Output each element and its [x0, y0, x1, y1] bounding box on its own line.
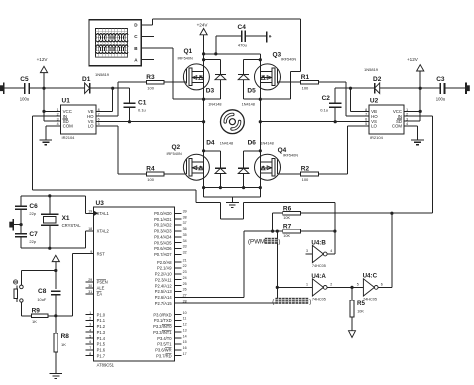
wire U1.COM — [46, 126, 61, 140]
node xtal top — [48, 194, 51, 197]
capacitor C3 — [436, 76, 446, 102]
resistor R7 — [283, 224, 301, 239]
svg-text:6: 6 — [98, 117, 100, 121]
svg-text:U3: U3 — [96, 200, 105, 207]
svg-text:8: 8 — [89, 352, 91, 356]
svg-text:C4: C4 — [238, 24, 247, 31]
label PWM — [248, 238, 280, 246]
svg-text:+24V: +24V — [197, 22, 209, 27]
resistor R6 — [283, 205, 301, 220]
svg-text:P3.4/T0: P3.4/T0 — [157, 336, 172, 341]
wire U4B in stub — [306, 253, 313, 255]
svg-text:P0.3/AD3: P0.3/AD3 — [154, 229, 172, 234]
wire R6 branch — [272, 213, 274, 231]
svg-text:R3: R3 — [146, 74, 155, 81]
wire D3 top — [204, 60, 221, 75]
U2 pin labels — [365, 108, 408, 129]
node RST net — [54, 314, 57, 317]
svg-text:1K: 1K — [61, 342, 66, 347]
node +24V rail — [202, 52, 205, 55]
node A left — [202, 186, 205, 189]
svg-text:P2.2/A10: P2.2/A10 — [155, 272, 173, 277]
node motor right rail — [259, 120, 262, 123]
svg-text:13: 13 — [183, 328, 187, 332]
ground R8 — [50, 374, 63, 379]
node U4A in — [276, 286, 279, 289]
wire switch top — [21, 270, 55, 272]
svg-text:P1.5: P1.5 — [97, 342, 106, 347]
transistor Q1 — [178, 48, 210, 90]
node U2 VCC — [419, 110, 422, 113]
wire scope D — [141, 19, 300, 25]
svg-text:74HC05: 74HC05 — [312, 264, 326, 268]
svg-text:R7: R7 — [283, 224, 292, 231]
label direction — [272, 298, 311, 306]
wire top rail — [204, 53, 261, 55]
wire U2.COM — [404, 126, 418, 140]
wire D4 bottom — [219, 174, 221, 188]
svg-text:P1.0: P1.0 — [97, 312, 106, 317]
wire — [4, 87, 25, 89]
U3 pin names — [94, 211, 172, 358]
svg-text:39: 39 — [183, 210, 187, 214]
wire U2.VCC — [404, 110, 420, 112]
mcu U3 box — [94, 200, 175, 367]
wire U1.IN — [33, 116, 61, 190]
svg-text:IRF540N: IRF540N — [281, 58, 296, 62]
svg-text:C5: C5 — [20, 76, 29, 83]
svg-text:23: 23 — [183, 270, 187, 274]
wire source rail A — [204, 187, 261, 189]
terminal right — [466, 83, 470, 94]
svg-text:D1: D1 — [82, 76, 91, 83]
wire — [29, 87, 85, 89]
node D5 top — [259, 58, 262, 61]
svg-text:C8: C8 — [38, 288, 47, 295]
wire U4A out — [327, 286, 363, 288]
svg-text:R6: R6 — [283, 205, 292, 212]
gate U4:B — [306, 239, 332, 268]
svg-text:14: 14 — [183, 334, 187, 338]
svg-text:P1.1: P1.1 — [97, 318, 106, 323]
wire R1 to U2.HO — [318, 82, 369, 116]
terminal arrow down — [349, 331, 356, 338]
power +12V right — [407, 57, 424, 88]
svg-text:21: 21 — [183, 258, 187, 262]
svg-text:COM: COM — [63, 124, 74, 129]
node xtal bottom — [48, 247, 51, 250]
wire — [21, 237, 86, 249]
transistor Q2 — [167, 144, 210, 180]
capacitor C2 — [320, 88, 341, 122]
svg-text:1N5819: 1N5819 — [364, 67, 379, 72]
terminal left mid — [9, 219, 21, 230]
wire C4 riser — [216, 36, 242, 54]
wire U1.HO — [96, 82, 147, 116]
capacitor C7 — [15, 231, 38, 244]
wire U4C out — [378, 213, 392, 287]
svg-text:PSEN: PSEN — [97, 280, 108, 285]
svg-text:+12V: +12V — [37, 57, 49, 62]
svg-text:1: 1 — [306, 283, 308, 287]
wire — [20, 209, 22, 233]
svg-text:XTAL1: XTAL1 — [97, 211, 110, 216]
crystal X1 — [41, 196, 81, 248]
switch button — [14, 271, 24, 316]
node left mid — [202, 98, 205, 101]
svg-text:C6: C6 — [29, 203, 38, 210]
svg-text:EA: EA — [97, 292, 103, 297]
wire U1.VCC — [44, 110, 60, 112]
svg-text:COM: COM — [392, 124, 403, 129]
wire Q4 gate — [277, 173, 300, 175]
svg-text:): ) — [278, 239, 280, 246]
wire P2.7 stub — [175, 302, 182, 304]
svg-text:P0.4/AD4: P0.4/AD4 — [154, 235, 172, 240]
diode D3 — [206, 75, 226, 107]
wire IN-net left — [33, 189, 196, 191]
U3 right stubs — [175, 210, 187, 356]
svg-text:10K: 10K — [283, 216, 290, 220]
transistor Q3 — [255, 51, 297, 90]
svg-text:1: 1 — [89, 311, 91, 315]
node D6 top — [259, 149, 262, 152]
svg-text:P1.3: P1.3 — [97, 330, 106, 335]
wire R7 line — [244, 230, 335, 232]
resistor R5 — [350, 287, 365, 330]
wire IN-net dodge rail — [196, 190, 335, 219]
svg-text:33: 33 — [183, 245, 187, 249]
node R6/R7 — [271, 230, 274, 233]
wire Q1 column — [203, 54, 205, 122]
svg-text:P3.7/RD: P3.7/RD — [156, 353, 172, 358]
gate U4:C — [357, 273, 383, 302]
svg-text:Q2: Q2 — [172, 144, 181, 151]
oscilloscope — [89, 20, 141, 66]
motor — [221, 110, 245, 134]
svg-text:D2: D2 — [373, 76, 382, 83]
svg-text:P1.7: P1.7 — [97, 353, 106, 358]
svg-text:30: 30 — [88, 284, 92, 288]
svg-text:LO: LO — [88, 124, 94, 129]
svg-text:17: 17 — [183, 352, 187, 356]
svg-text:P2.4/A12: P2.4/A12 — [155, 283, 173, 288]
svg-text:U4:B: U4:B — [311, 239, 326, 246]
svg-text:C3: C3 — [436, 76, 445, 83]
svg-text:U1: U1 — [62, 98, 71, 105]
svg-text:C2: C2 — [322, 95, 331, 102]
svg-text:R2: R2 — [301, 166, 310, 173]
capacitor C4 — [238, 24, 272, 47]
capacitor C8 — [37, 288, 60, 302]
node +12V/C5 — [42, 87, 45, 90]
svg-text:D6: D6 — [248, 140, 257, 147]
svg-text:38: 38 — [183, 215, 187, 219]
node D1/VB — [111, 87, 114, 90]
svg-text:2: 2 — [89, 317, 91, 321]
wire U2.IN — [404, 116, 433, 213]
svg-text:P3.2/INT0: P3.2/INT0 — [153, 324, 172, 329]
wire switch bottom — [21, 315, 31, 317]
svg-text:6: 6 — [365, 117, 367, 121]
wire — [380, 87, 441, 89]
resistor R2 — [301, 166, 319, 183]
svg-text:R9: R9 — [32, 308, 41, 315]
svg-text:22p: 22p — [29, 211, 36, 216]
wire P2.6 stub — [175, 296, 182, 298]
svg-text:IRF540N: IRF540N — [167, 152, 182, 156]
wire U1.VS rail — [96, 121, 204, 123]
svg-text:IR2104: IR2104 — [62, 135, 76, 140]
node R7 right — [333, 230, 336, 233]
diode D2 — [351, 67, 382, 94]
wire U4A in — [277, 286, 312, 288]
wire Q2 column — [203, 122, 205, 197]
svg-text:P2.5/A13: P2.5/A13 — [155, 289, 173, 294]
svg-text:1N4148: 1N4148 — [208, 103, 221, 107]
wire left mid — [204, 98, 221, 100]
svg-text:100: 100 — [302, 177, 309, 182]
ground bridge — [226, 203, 239, 208]
wire scope B — [141, 48, 203, 99]
wire scope D route — [291, 19, 301, 99]
svg-text:24: 24 — [183, 276, 187, 280]
wire D6 top — [244, 151, 261, 169]
svg-text:22p: 22p — [29, 239, 36, 244]
svg-text:26: 26 — [183, 288, 187, 292]
svg-text:P3.3/INT1: P3.3/INT1 — [153, 330, 172, 335]
capacitor C1 — [123, 100, 146, 113]
wire D4 top — [204, 151, 221, 169]
node +12V right — [419, 87, 422, 90]
node D4 top — [202, 149, 205, 152]
wire P2.7 riser — [182, 231, 278, 303]
svg-text:100: 100 — [147, 85, 154, 90]
svg-text:IRF540N: IRF540N — [178, 56, 193, 60]
wire — [129, 107, 131, 122]
svg-text:29: 29 — [88, 278, 92, 282]
svg-text:34: 34 — [183, 239, 187, 243]
svg-text:1N4148: 1N4148 — [260, 141, 273, 145]
svg-text:5: 5 — [365, 122, 367, 126]
svg-text:IR2104: IR2104 — [370, 135, 384, 140]
transistor Q4 — [255, 147, 299, 180]
svg-text:0.1u: 0.1u — [138, 108, 146, 113]
svg-text:1N4148: 1N4148 — [220, 141, 233, 145]
svg-text:D4: D4 — [206, 140, 215, 147]
svg-text:100u: 100u — [436, 97, 446, 102]
svg-text:28: 28 — [183, 299, 187, 303]
wire XTAL1 — [86, 196, 94, 213]
svg-text:LO: LO — [371, 124, 377, 129]
wire D6 bottom — [243, 174, 245, 188]
wire motor rail right — [260, 121, 369, 123]
svg-text:1K: 1K — [32, 319, 37, 324]
svg-text:22: 22 — [183, 264, 187, 268]
svg-text:7: 7 — [89, 346, 91, 350]
svg-text:25: 25 — [183, 282, 187, 286]
svg-text:P2.0/A8: P2.0/A8 — [157, 260, 172, 265]
diode D1 — [82, 72, 110, 94]
svg-text:100u: 100u — [20, 97, 30, 102]
wire U1.VB — [96, 110, 113, 112]
svg-text:P2.6/A14: P2.6/A14 — [155, 295, 173, 300]
wire R3 to Q1 gate — [164, 81, 186, 83]
op-amp driver U1 box — [60, 98, 95, 140]
svg-text:470u: 470u — [238, 43, 247, 48]
svg-text:U4:A: U4:A — [311, 273, 326, 280]
svg-text:5: 5 — [357, 283, 359, 287]
svg-text:P2.1/A9: P2.1/A9 — [157, 266, 172, 271]
node VCC — [42, 110, 45, 113]
gate U4:A — [306, 273, 332, 302]
svg-text:X1: X1 — [62, 215, 70, 222]
resistor R4 — [146, 166, 164, 183]
svg-text:6: 6 — [381, 283, 383, 287]
svg-text:P3.1/TXD: P3.1/TXD — [154, 318, 172, 323]
svg-text:U4:C: U4:C — [363, 273, 378, 280]
node C1/VS — [128, 120, 131, 123]
wire C2 top — [335, 87, 350, 89]
svg-text:P1.2: P1.2 — [97, 324, 106, 329]
svg-text:P0.6/AD6: P0.6/AD6 — [154, 246, 172, 251]
wire Q3 column — [259, 54, 261, 122]
diode D5 — [238, 75, 256, 107]
svg-text:P3.0/RXD: P3.0/RXD — [153, 312, 171, 317]
wire — [55, 295, 57, 334]
wire +12V rail down right — [404, 88, 420, 121]
wire D5 top — [244, 60, 261, 75]
svg-text:AT89C51: AT89C51 — [97, 362, 115, 367]
svg-text:35: 35 — [183, 233, 187, 237]
wire — [48, 315, 56, 317]
svg-text:0.1u: 0.1u — [320, 108, 328, 113]
wire VB riser — [112, 88, 114, 111]
svg-text:D5: D5 — [247, 88, 256, 95]
node U4C out — [390, 212, 393, 215]
svg-text:12: 12 — [183, 323, 187, 327]
wire R4 to Q2 gate — [164, 173, 186, 175]
svg-text:ALE: ALE — [97, 286, 105, 291]
terminal input left — [0, 83, 4, 94]
svg-text:100: 100 — [302, 85, 309, 90]
wire +12V rail down — [44, 88, 60, 121]
wire — [20, 196, 22, 206]
node C2/VS — [334, 120, 337, 123]
wire R6 line — [273, 212, 433, 214]
svg-text:2: 2 — [330, 283, 332, 287]
svg-text:7: 7 — [365, 113, 367, 117]
svg-text:P0.2/AD2: P0.2/AD2 — [154, 223, 172, 228]
svg-text:D3: D3 — [206, 88, 215, 95]
svg-text:(PWM: (PWM — [248, 239, 265, 246]
wire — [90, 87, 130, 89]
svg-text:RST: RST — [97, 251, 106, 256]
node switch tap — [54, 269, 57, 272]
power +12V left — [37, 57, 49, 88]
wire gnd tap — [231, 197, 233, 202]
wire U4B out — [327, 202, 335, 254]
svg-text:P0.7/AD7: P0.7/AD7 — [154, 252, 172, 257]
svg-text:74HC05: 74HC05 — [363, 298, 377, 302]
svg-text:P3.6/WR: P3.6/WR — [155, 348, 171, 353]
svg-text:R1: R1 — [301, 74, 310, 81]
wire D5 bottom — [243, 80, 245, 100]
resistor R1 — [301, 74, 319, 90]
svg-text:6: 6 — [89, 340, 91, 344]
svg-text:15: 15 — [183, 340, 187, 344]
wire U2.VS — [334, 121, 369, 123]
capacitor C6 — [15, 203, 38, 216]
node motor left rail — [202, 120, 205, 123]
svg-text:U2: U2 — [370, 98, 379, 105]
svg-text:16: 16 — [183, 346, 187, 350]
wire — [445, 87, 466, 89]
svg-text:10K: 10K — [283, 234, 290, 238]
resistor R9 — [31, 308, 48, 324]
svg-text:4: 4 — [330, 249, 332, 253]
wire C1 riser — [129, 88, 131, 103]
svg-text:R4: R4 — [146, 166, 155, 173]
svg-text:3: 3 — [306, 249, 308, 253]
node right mid — [259, 98, 262, 101]
node U4A branch — [276, 230, 279, 233]
svg-text:P0.0/AD0: P0.0/AD0 — [154, 211, 172, 216]
capacitor C5 — [20, 76, 30, 102]
svg-text:Q1: Q1 — [184, 48, 193, 55]
svg-text:R8: R8 — [61, 333, 70, 340]
wire xtal top — [21, 195, 86, 197]
wire scope A stub — [141, 59, 154, 61]
svg-text:27: 27 — [183, 294, 187, 298]
svg-text:IRF540N: IRF540N — [283, 154, 298, 158]
ground U1 — [40, 140, 53, 145]
wire Q4 column — [259, 122, 261, 197]
svg-text:C7: C7 — [29, 231, 38, 238]
wire RST — [56, 254, 94, 316]
svg-text:1N5819: 1N5819 — [95, 72, 110, 77]
svg-text:XTAL2: XTAL2 — [97, 229, 110, 234]
svg-text:10: 10 — [183, 311, 187, 315]
svg-text:31: 31 — [88, 290, 92, 294]
node A right — [259, 186, 262, 189]
wire P2.6 riser — [182, 231, 244, 297]
power +24V — [197, 22, 209, 54]
svg-text:CRYSTAL: CRYSTAL — [62, 223, 82, 228]
svg-text:P1.4: P1.4 — [97, 336, 106, 341]
svg-text:P1.6: P1.6 — [97, 348, 106, 353]
node D2/VB — [349, 87, 352, 90]
wire scope C stub — [141, 35, 153, 37]
svg-text:P0.1/AD1: P0.1/AD1 — [154, 217, 172, 222]
svg-text:+12V: +12V — [407, 57, 419, 62]
U1 pin labels — [57, 108, 100, 129]
node C4 tap — [214, 52, 217, 55]
wire U2.VB — [351, 110, 369, 112]
svg-text:C1: C1 — [138, 100, 147, 107]
svg-text:3: 3 — [89, 323, 91, 327]
U3 left stubs — [86, 210, 94, 356]
node D3 top — [202, 58, 205, 61]
svg-text:11: 11 — [183, 317, 187, 321]
wire U1.LO — [96, 126, 147, 174]
wire R2 to U2.LO — [318, 126, 369, 174]
diode D6 — [238, 140, 274, 174]
node D4 bottom — [219, 186, 222, 189]
wire — [55, 352, 57, 373]
wire D3 bottom — [219, 80, 221, 100]
svg-text:1N4148: 1N4148 — [242, 103, 255, 107]
